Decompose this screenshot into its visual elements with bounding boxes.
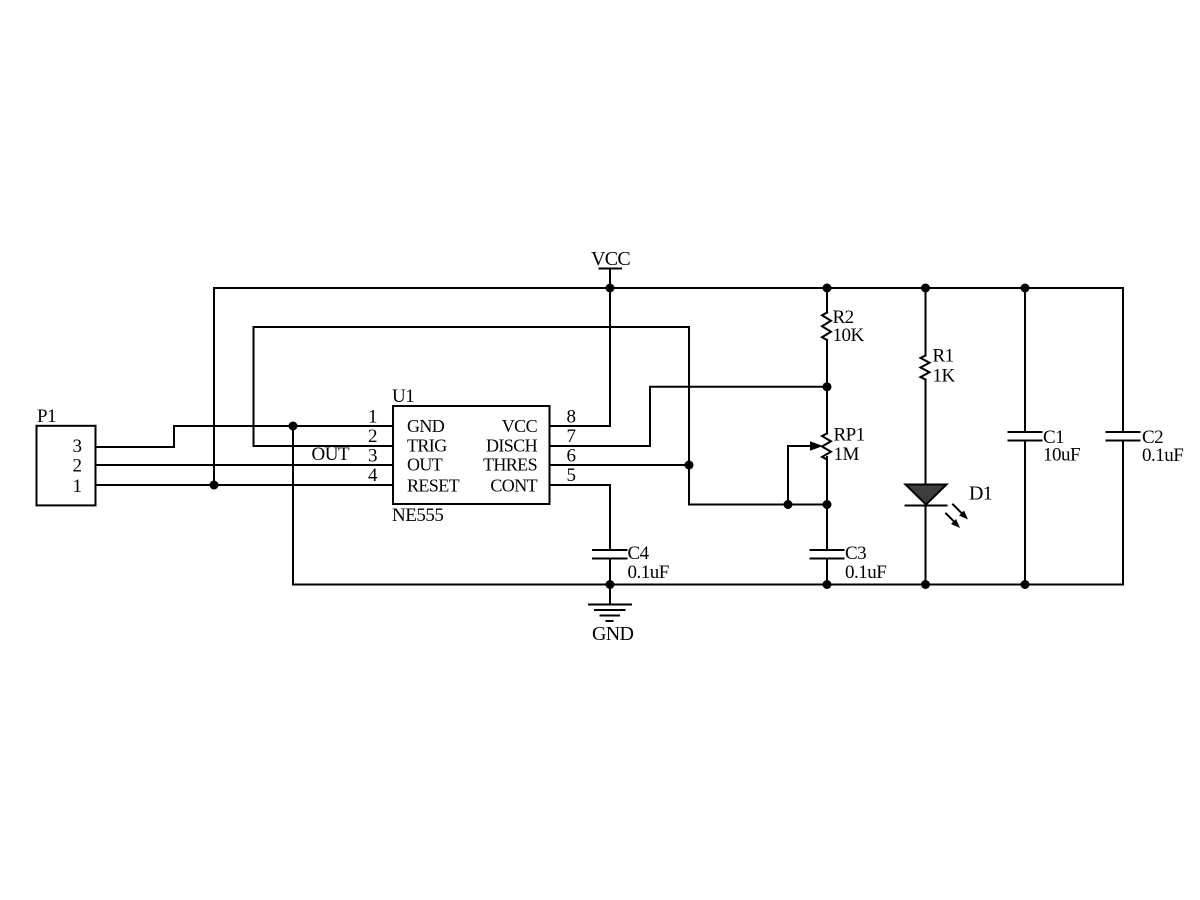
wire U1 pin6 to THRES vertical bbox=[550, 464, 690, 466]
node C1 bottom junction bbox=[1021, 580, 1030, 589]
svg-text:0.1uF: 0.1uF bbox=[628, 562, 669, 583]
node VCC bus junction bbox=[606, 284, 615, 293]
wire GND drop from pin1 wire bbox=[292, 426, 294, 585]
wire TRIG stub to U1 pin2 bbox=[254, 445, 394, 447]
svg-text:3: 3 bbox=[73, 436, 82, 457]
node wiper junction bbox=[784, 500, 793, 509]
svg-text:5: 5 bbox=[567, 465, 576, 486]
op-amp U1 NE555 body bbox=[393, 406, 550, 504]
node RP1 bottom junction bbox=[823, 500, 832, 509]
node THRES junction bbox=[685, 461, 694, 470]
node pin1 GND junction bbox=[289, 422, 298, 431]
node R2 bottom junction bbox=[823, 382, 832, 391]
node C1 top junction bbox=[1021, 284, 1030, 293]
svg-text:D1: D1 bbox=[969, 483, 992, 505]
wire U1 pin8 to VCC bus bbox=[550, 288, 611, 426]
svg-text:10K: 10K bbox=[833, 325, 865, 346]
wire P1 pin1 to U1 pin4 bbox=[96, 484, 394, 486]
node RESET-VCC junction bbox=[210, 481, 219, 490]
svg-text:TRIG: TRIG bbox=[407, 436, 447, 456]
svg-text:GND: GND bbox=[592, 623, 633, 645]
capacitor C1 bbox=[1009, 288, 1042, 585]
svg-text:0.1uF: 0.1uF bbox=[1142, 445, 1183, 466]
svg-text:C4: C4 bbox=[628, 543, 650, 564]
LED D1 emission arrow 1 bbox=[953, 505, 968, 520]
node R1 top junction bbox=[921, 284, 930, 293]
svg-text:1M: 1M bbox=[834, 444, 860, 465]
node C3 ground junction bbox=[823, 580, 832, 589]
svg-text:4: 4 bbox=[368, 465, 378, 486]
svg-text:1: 1 bbox=[368, 407, 377, 428]
wire THRES to RP1 bottom bbox=[689, 504, 827, 506]
resistor R2 bbox=[822, 288, 831, 387]
svg-text:OUT: OUT bbox=[407, 455, 443, 475]
svg-text:CONT: CONT bbox=[490, 476, 537, 496]
LED D1 emission arrow 2 bbox=[946, 514, 960, 529]
capacitor C4 bbox=[593, 550, 627, 585]
svg-text:1K: 1K bbox=[933, 366, 956, 387]
svg-text:OUT: OUT bbox=[312, 444, 350, 465]
connector P1 bbox=[37, 426, 96, 506]
wire U1 pin5 to C4 bbox=[550, 485, 611, 550]
svg-text:0.1uF: 0.1uF bbox=[845, 562, 886, 583]
resistor R1 bbox=[921, 288, 930, 485]
svg-text:U1: U1 bbox=[392, 386, 414, 407]
wire P1 pin3 to U1 pin1 step bbox=[96, 426, 394, 447]
node C4 ground junction bbox=[606, 580, 615, 589]
capacitor C3 bbox=[811, 505, 844, 585]
capacitor C2 bbox=[1107, 288, 1140, 585]
node R2 top junction bbox=[823, 284, 832, 293]
potentiometer RP1 bbox=[822, 387, 831, 505]
svg-text:RESET: RESET bbox=[407, 476, 460, 496]
wire TRIG bus horizontal bbox=[254, 326, 690, 328]
svg-text:7: 7 bbox=[567, 426, 576, 447]
svg-text:GND: GND bbox=[407, 416, 445, 436]
svg-text:R1: R1 bbox=[933, 346, 954, 367]
wire TRIG bus drop bbox=[253, 327, 255, 446]
potentiometer RP1 wiper bbox=[788, 441, 823, 504]
wire THRES vertical bbox=[688, 327, 690, 505]
svg-text:2: 2 bbox=[368, 426, 377, 447]
svg-text:VCC: VCC bbox=[502, 416, 538, 436]
svg-text:C3: C3 bbox=[845, 543, 866, 564]
ground symbol bbox=[589, 585, 631, 622]
svg-text:VCC: VCC bbox=[591, 248, 630, 270]
svg-text:10uF: 10uF bbox=[1043, 445, 1080, 466]
wire ground bottom bus bbox=[293, 584, 1123, 586]
svg-text:RP1: RP1 bbox=[834, 425, 865, 446]
LED D1 bbox=[906, 485, 947, 585]
svg-text:6: 6 bbox=[567, 446, 576, 467]
svg-text:THRES: THRES bbox=[483, 455, 537, 475]
svg-text:1: 1 bbox=[73, 476, 82, 497]
svg-text:NE555: NE555 bbox=[392, 505, 443, 526]
power symbol VCC bbox=[591, 248, 630, 288]
node D1 bottom junction bbox=[921, 580, 930, 589]
svg-text:P1: P1 bbox=[37, 406, 56, 427]
svg-text:8: 8 bbox=[567, 407, 576, 428]
wire P1 pin2 to U1 pin3 bbox=[96, 464, 394, 466]
svg-text:DISCH: DISCH bbox=[486, 436, 538, 456]
svg-text:2: 2 bbox=[73, 456, 82, 477]
wire VCC top bus bbox=[214, 287, 1123, 289]
wire left VCC drop to RESET bbox=[213, 288, 215, 485]
svg-text:3: 3 bbox=[368, 446, 377, 467]
wire U1 pin7 to R2 bottom bbox=[550, 387, 828, 446]
